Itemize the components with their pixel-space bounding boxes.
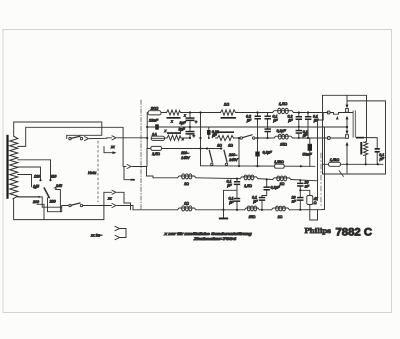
- plug connector row1: [127, 165, 131, 169]
- wire row1 right: [291, 180, 317, 181]
- svg-text:7882 C: 7882 C: [336, 227, 373, 239]
- wire: mid rail corner down to filter: [324, 128, 326, 210]
- inductor 15R: [274, 136, 293, 138]
- svg-text:1Ω: 1Ω: [224, 102, 229, 107]
- svg-text:μF: μF: [246, 118, 252, 122]
- capacitor 0.2uF col1: [257, 113, 259, 116]
- wire rail3: [255, 137, 274, 139]
- svg-text:15Ω: 15Ω: [249, 215, 256, 219]
- capacitor 0.1uF col-b top: [266, 179, 268, 186]
- wire conn line to filter row1: [124, 166, 126, 168]
- wire row2: [260, 209, 271, 211]
- filter row2 line: [133, 209, 178, 211]
- svg-text:110: 110: [51, 175, 57, 179]
- capacitor 0.2uF col2 mid: [265, 128, 271, 130]
- resistor 47R: [300, 190, 310, 195]
- capacitor 8uF upper: [186, 117, 195, 119]
- svg-text:22nF: 22nF: [148, 118, 159, 123]
- selector switch a: [206, 147, 208, 149]
- mains switch lower pole: [69, 204, 71, 206]
- capacitor 0.1uF col-b bottom: [259, 197, 265, 199]
- svg-text:Zerhacker-7934: Zerhacker-7934: [192, 237, 236, 241]
- svg-text:1,5kΩ: 1,5kΩ: [330, 158, 340, 162]
- svg-text:15Ω: 15Ω: [280, 143, 287, 147]
- tap wire 145: [18, 175, 32, 187]
- resistor 1.5k left: [275, 164, 285, 168]
- inductor 1R row2 right: [272, 208, 290, 210]
- wire: top rail jog down: [318, 113, 324, 201]
- svg-text:μF: μF: [287, 118, 293, 122]
- contact arrow 245: [53, 187, 56, 189]
- svg-text:1Ω: 1Ω: [217, 143, 222, 147]
- svg-text:1Ω: 1Ω: [278, 215, 283, 219]
- svg-text:0,1μF: 0,1μF: [271, 186, 281, 190]
- inductor 1.5R top: [273, 111, 294, 113]
- Netz coupling dashed: [97, 141, 99, 202]
- wire tap 200: [18, 196, 39, 198]
- tap wire 120: [18, 167, 41, 180]
- connector 1: [112, 190, 116, 194]
- capacitor 0.2uF col3: [298, 113, 300, 117]
- svg-text:x: x: [170, 119, 173, 123]
- arrow stub: [104, 147, 113, 153]
- selector switch b: [220, 147, 222, 149]
- core bar: [167, 117, 181, 119]
- resistor 20R: [148, 111, 161, 115]
- contact arrow 200: [39, 196, 42, 198]
- svg-text:20Ω: 20Ω: [150, 105, 159, 110]
- svg-text:1Ω: 1Ω: [184, 201, 189, 205]
- svg-text:Ω: Ω: [314, 201, 317, 205]
- xx plug connector B: [112, 136, 116, 140]
- wire tap bottom to switch: [18, 197, 62, 207]
- svg-text:x nur für zusätzliche Sendere: x nur für zusätzliche Senderentstörung: [163, 232, 252, 236]
- svg-text:μF: μF: [228, 201, 234, 205]
- svg-text:50mF: 50mF: [303, 153, 313, 157]
- svg-text:1Ω: 1Ω: [280, 182, 285, 186]
- capacitor 0.1uF col2: [267, 113, 269, 116]
- vibrator terminal upper: [327, 111, 330, 114]
- transformer core: [6, 135, 8, 199]
- wire jog to xx connector: [107, 137, 112, 140]
- svg-text:8μF: 8μF: [180, 121, 187, 125]
- wire top rail: [236, 112, 273, 114]
- wire: 2.5R line: [147, 148, 222, 150]
- svg-text:nF: nF: [305, 185, 310, 189]
- vibrator outer loop: [323, 101, 386, 174]
- svg-text:1Ω: 1Ω: [184, 182, 189, 186]
- wire switch drop: [238, 138, 240, 166]
- resistor x (suppression) lower: [165, 135, 191, 140]
- wire: [146, 149, 148, 167]
- legend socket bracket: [115, 226, 120, 230]
- selector pivot wire: [48, 197, 69, 212]
- svg-text:1,5kΩ: 1,5kΩ: [274, 160, 284, 164]
- mid rail: [147, 126, 347, 128]
- wire 245 contact down: [56, 190, 61, 212]
- capacitor 20nF top: [299, 180, 301, 182]
- inductor 1R row2 left: [178, 208, 197, 210]
- tap wire 110: [18, 160, 51, 180]
- svg-text:1A: 1A: [152, 132, 157, 137]
- wire: tap to second line: [18, 127, 123, 166]
- vibrator terminal lower: [327, 137, 330, 140]
- resistor 1R 1R pair: [216, 135, 234, 140]
- capacitor 0.1uF col4: [307, 113, 309, 117]
- wire conn1 to filter: [117, 192, 131, 210]
- svg-text:0,2μF: 0,2μF: [277, 129, 287, 133]
- capacitor 0.1uF lower: [257, 138, 259, 152]
- transformer primary winding: [10, 136, 18, 199]
- contact arrow 145: [33, 187, 37, 189]
- svg-text:x: x: [183, 114, 186, 118]
- svg-text:nF: nF: [292, 200, 297, 204]
- svg-text:+: +: [195, 119, 198, 124]
- wire row1: [258, 178, 273, 181]
- svg-text:x: x: [164, 129, 167, 133]
- svg-text:2,5Ω: 2,5Ω: [151, 152, 160, 156]
- vibrator box outline: [323, 95, 367, 174]
- wire with hop: [330, 113, 353, 115]
- svg-text:+: +: [193, 134, 196, 139]
- mains switch upper pole: [69, 137, 71, 139]
- wire top rail right: [294, 112, 329, 114]
- svg-text:Philips: Philips: [305, 226, 332, 235]
- chassis boundary dash-dot: [140, 100, 142, 210]
- capacitor 0.1uF vibrator: [375, 148, 380, 150]
- slash mark: [339, 171, 344, 177]
- wire to cap: [364, 138, 377, 148]
- svg-text:μF: μF: [226, 183, 232, 187]
- svg-text:xx: xx: [110, 145, 115, 149]
- svg-text:1,5Ω: 1,5Ω: [244, 184, 252, 188]
- svg-text:Netz: Netz: [88, 170, 96, 175]
- ground branch wire: [224, 190, 238, 217]
- svg-text:μF: μF: [272, 118, 278, 122]
- voltage selector blade: [44, 188, 49, 198]
- capacitor 0.1uF col-a top: [236, 179, 238, 181]
- svg-text:8μF: 8μF: [179, 128, 186, 132]
- filter row1 line: [153, 177, 178, 179]
- svg-text:200: 200: [32, 200, 39, 204]
- contact triangle: [336, 116, 339, 120]
- plug connector: [85, 137, 89, 141]
- node: mains input vertical: [146, 113, 148, 149]
- wire row2: [196, 209, 244, 211]
- junction dot: [146, 126, 148, 128]
- switch contact: [240, 137, 242, 139]
- capacitor 8uF lower: [186, 131, 195, 133]
- wire: winding top to top line: [13, 122, 15, 136]
- wire conn2 to filter: [117, 206, 133, 210]
- svg-text:245V: 245V: [228, 158, 238, 162]
- wire top rail: [181, 112, 221, 114]
- inductor 1R row1 right: [273, 178, 292, 180]
- capacitor 22nF: [155, 124, 159, 129]
- svg-text:110–: 110–: [181, 151, 190, 155]
- resistor 1.5k vibrator: [323, 163, 384, 165]
- contact dot 110: [49, 179, 51, 181]
- svg-text:1,5Ω: 1,5Ω: [279, 101, 288, 106]
- svg-text:220: 220: [49, 200, 56, 204]
- wire row1: [196, 177, 240, 180]
- wire rail3 right: [293, 137, 328, 139]
- vibrator drive coil: [360, 142, 362, 155]
- svg-text:0,1μF: 0,1μF: [263, 151, 273, 155]
- svg-text:1Ω: 1Ω: [228, 143, 233, 147]
- capacitor 50mF: [309, 138, 311, 144]
- wire: [161, 112, 167, 114]
- junction dot: [146, 137, 148, 139]
- capacitor 0.22uF: [207, 130, 211, 135]
- rail lower mid: [201, 165, 316, 168]
- vibrator reed column: [346, 95, 348, 104]
- wire row2 right with corner up: [290, 208, 325, 210]
- svg-text:xx: xx: [107, 197, 112, 201]
- svg-text:μF: μF: [302, 134, 308, 138]
- wire 8uF column: [189, 113, 191, 118]
- core bar lower: [167, 132, 181, 134]
- wire: winding bottom around to connector: [13, 192, 112, 219]
- svg-text:200–: 200–: [228, 153, 238, 157]
- inductor 1R row1 left: [178, 176, 197, 178]
- wire: selector to bottom rail: [37, 204, 44, 219]
- resistor 1R top: [221, 110, 236, 115]
- contact dot 120: [39, 179, 41, 181]
- wire: [234, 137, 241, 139]
- connector stub lower pole: [124, 167, 131, 180]
- chassis dash-dot right: [320, 153, 322, 207]
- capacitor 20nF bottom: [297, 197, 303, 199]
- resistor 2.5R: [151, 146, 162, 150]
- capacitor 0.1uF col-a bottom: [234, 198, 240, 200]
- svg-text:x: x: [181, 137, 184, 141]
- svg-text:xx Bu~: xx Bu~: [90, 234, 102, 238]
- wire vertical node: [200, 113, 202, 166]
- vibrator armature: [352, 111, 354, 138]
- inductor 1.5R row1: [240, 177, 258, 179]
- connector 2: [112, 204, 116, 208]
- inductor 15R row2: [245, 208, 260, 210]
- svg-text:μF: μF: [252, 200, 258, 204]
- svg-text:μF: μF: [211, 134, 217, 138]
- svg-text:120: 120: [34, 175, 40, 179]
- resistor x (suppression) top: [167, 110, 181, 115]
- capacitor 0.1uF col3 mid: [296, 130, 302, 132]
- ground: [219, 218, 228, 220]
- fuse 1A: [151, 136, 164, 140]
- svg-text:145V: 145V: [181, 156, 190, 160]
- wire: top line to mains switch: [14, 122, 102, 139]
- svg-text:μF: μF: [379, 157, 385, 161]
